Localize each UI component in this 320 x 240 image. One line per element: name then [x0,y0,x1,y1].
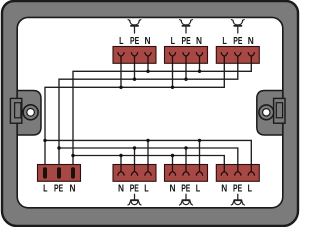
terminal block X2 (top plug 2) [165,47,208,64]
connector symbol socket 2 [179,194,192,205]
svg-text:N: N [145,36,151,47]
feed slot PE [57,167,61,178]
svg-text:L: L [43,184,47,195]
svg-text:PE: PE [54,184,63,195]
connector symbol plug 2 [180,20,193,33]
svg-text:L: L [196,184,200,195]
svg-text:PE: PE [233,36,242,47]
svg-text:L: L [119,36,123,47]
junction plug1 PE [133,78,136,81]
wire plug1 N stub [147,60,149,71]
junction socket2 N [171,154,174,157]
svg-text:N: N [170,184,176,195]
junction feed N branch [71,154,74,157]
junction socket2 PE [184,146,187,149]
wire plug2 N stub [199,60,201,71]
junction socket1 L [146,139,149,142]
svg-text:L: L [248,184,252,195]
wire PE bus bottom (to socket 3 PE) [59,148,238,168]
junction feed PE branch [57,146,60,149]
wire socket1 L stub [147,140,149,168]
svg-text:PE: PE [233,184,242,195]
terminal block X4 (bottom socket 1) [113,165,156,182]
feed slot N [71,167,75,178]
svg-text:L: L [222,36,226,47]
right mounting lug [257,91,285,136]
svg-text:N: N [70,184,76,195]
svg-text:N: N [118,184,124,195]
junction plug2 N [198,70,201,73]
wire L bus top (feed L up, across, up to plug 3 L) [45,60,224,168]
wire PE bus top (feed PE up, across, up to plug 3 PE) [59,60,238,168]
left mounting lug [10,91,41,136]
wire plug2 PE stub [185,60,187,79]
wire socket2 N stub [172,156,174,169]
wire plug1 L stub [120,60,122,87]
junction feed L branch [43,139,46,142]
terminal block X0 (feed input) [38,165,81,182]
junction socket1 N [119,154,122,157]
connector symbol plug 1 [128,20,141,33]
svg-text:PE: PE [130,36,139,47]
terminal block X3 (top plug 3) [216,47,259,64]
junction plug2 L [171,86,174,89]
terminal block X1 (top plug 1) [113,47,156,64]
wire socket1 N stub [120,156,122,169]
feed slot L [43,167,47,178]
junction plug2 PE [184,78,187,81]
svg-text:PE: PE [130,184,139,195]
wire socket2 L stub [199,140,201,168]
wire socket1 PE stub [134,148,136,168]
svg-text:L: L [171,36,175,47]
pin forks plug 1 [118,53,151,64]
junction socket1 PE [133,146,136,149]
junction plug1 L [119,86,122,89]
svg-text:PE: PE [181,184,190,195]
wire plug1 PE stub [134,60,136,79]
wire plug2 L stub [172,60,174,87]
enclosure inner cavity [17,17,283,207]
svg-text:N: N [221,184,227,195]
junction socket2 L [198,139,201,142]
svg-text:PE: PE [182,36,191,47]
connector symbol socket 1 [128,194,141,205]
wire socket2 PE stub [185,148,187,168]
svg-text:N: N [196,36,202,47]
terminal block X5 (bottom socket 2) [165,165,208,182]
svg-text:N: N [248,36,254,47]
terminal block X6 (bottom socket 3) [216,165,259,182]
connector symbol socket 3 [231,194,244,205]
svg-text:L: L [144,184,148,195]
wire N bus top (feed N up, across, up to plug 3 N) [73,60,251,168]
wire N bus bottom (to socket 3 N) [73,156,224,169]
connector symbol plug 3 [231,20,244,33]
junction plug1 N [146,70,149,73]
wire L bus bottom (to socket 3 L) [45,140,251,168]
